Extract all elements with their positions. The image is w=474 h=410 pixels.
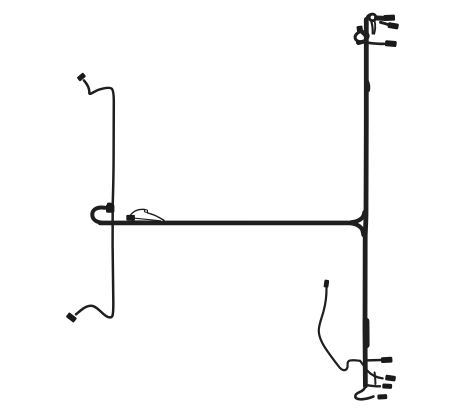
connector T3 plug xyxy=(356,25,363,33)
top cluster stub end xyxy=(359,41,365,43)
wire W2 continuation to connector B xyxy=(360,361,383,379)
trunk sleeve thicker section xyxy=(363,321,370,345)
clip component hump detail xyxy=(144,210,147,212)
harness left hook xyxy=(92,207,105,222)
connector A lead xyxy=(368,359,382,362)
top cluster strand a xyxy=(371,21,372,33)
wire left thin W1 upper S-curve xyxy=(84,81,114,206)
connector D plug xyxy=(377,394,387,400)
connector W2 plug xyxy=(323,280,329,288)
connector L3 plug at hook end xyxy=(106,204,114,213)
connector L2 bottom-left plug xyxy=(66,312,77,323)
wire left thin W1 lower segment xyxy=(76,205,113,317)
wire D loop xyxy=(355,386,373,399)
wire trunk-to-curl xyxy=(366,15,370,22)
harness main horizontal xyxy=(100,221,353,226)
connector B plug xyxy=(385,375,396,382)
connector C plug xyxy=(382,383,392,389)
clip component inner line xyxy=(135,218,161,221)
connector T1 lead xyxy=(377,16,385,21)
connector T1 plug xyxy=(383,15,395,21)
top cluster strand b xyxy=(374,22,375,34)
connector T2 plug xyxy=(387,22,399,30)
connector C lead xyxy=(368,385,380,386)
wire W2 thin bottom-right xyxy=(319,288,360,370)
clip component body outline on harness xyxy=(129,209,165,221)
trunk small bump xyxy=(368,82,369,91)
harness-trunk junction upper curve xyxy=(351,212,365,222)
trunk main vertical xyxy=(365,20,366,387)
connector L1 top-left plug xyxy=(77,72,87,81)
connector T3 lead xyxy=(362,33,366,38)
connector T4 lead xyxy=(369,43,385,44)
top cluster ring loop xyxy=(354,30,369,43)
clip component black latch xyxy=(126,215,135,221)
connector T2 lead xyxy=(381,22,389,25)
top cluster curl loop xyxy=(369,14,376,21)
connector A plug xyxy=(381,357,393,363)
connector T4 plug xyxy=(385,40,397,47)
harness-trunk junction lower curve xyxy=(351,223,364,235)
connector C stub wire xyxy=(374,373,377,385)
